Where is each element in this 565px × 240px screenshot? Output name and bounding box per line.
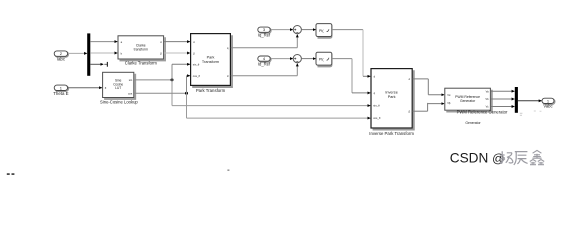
svg-text:sin_θ: sin_θ [193, 63, 200, 67]
svg-text:CSDN @: CSDN @ [450, 151, 505, 166]
svg-text:sin: sin [129, 78, 133, 82]
output port 1 Vabc [542, 98, 555, 108]
svg-text:Transform: Transform [202, 60, 219, 64]
svg-text:PI(: PI( [319, 57, 324, 61]
svg-text:sin_θ: sin_θ [373, 104, 380, 108]
hanzi yang [500, 151, 513, 163]
svg-text:Park: Park [207, 56, 215, 60]
svg-text:Vβ: Vβ [447, 101, 451, 105]
block Sine-Cosine Lookup [100, 72, 138, 104]
svg-text:Park Transform: Park Transform [196, 88, 226, 93]
block Park Transform [191, 34, 232, 93]
svg-text:Iq_Ref: Iq_Ref [258, 33, 271, 38]
svg-text:Generator: Generator [465, 121, 481, 125]
stray faint marks under mux [520, 111, 542, 116]
block Inverse Park Transform [369, 69, 414, 136]
svg-text:Id_Ref: Id_Ref [258, 62, 271, 67]
svg-text:Inverse: Inverse [385, 91, 397, 95]
input port 1 Theta E [53, 85, 68, 96]
wire Iq_Ref to sum1 [271, 29, 293, 31]
block Clarke Transform [118, 36, 165, 66]
wire Clarke out1 to Park in1 [164, 41, 190, 43]
wire PI1 to Inverse Park in2 [332, 30, 370, 77]
svg-text:Park: Park [388, 95, 396, 99]
sum block Sum1 [293, 26, 301, 34]
wire Clarke out2 to Park in2 [164, 52, 190, 54]
hanzi xin [530, 150, 544, 165]
wire sin output with junction [134, 64, 370, 105]
svg-text:Vabc: Vabc [543, 104, 552, 109]
svg-text:cos_θ: cos_θ [373, 116, 381, 120]
wire PWM out1 to mux [491, 90, 515, 92]
svg-text:Vb: Vb [485, 97, 489, 101]
svg-text:PI(: PI( [319, 29, 324, 33]
mux Mux1 (bar) [515, 87, 518, 113]
svg-text:PWM Reference Generator: PWM Reference Generator [457, 110, 508, 115]
wire Inverse Park out1 to PWM in1 [412, 79, 444, 95]
wire Iabc to demux [68, 52, 87, 54]
wire PWM out2 to mux [491, 98, 515, 100]
svg-text:cos: cos [128, 92, 133, 95]
svg-text:Vα: Vα [447, 93, 451, 97]
block PWM Reference Generator [445, 88, 508, 125]
svg-text:Clarke Transform: Clarke Transform [125, 61, 158, 66]
wire Id_Ref to sum2 [271, 58, 293, 60]
PI controller block PI2 [316, 52, 332, 66]
wire demux out3 to terminator [90, 62, 107, 67]
svg-text:Iabc: Iabc [57, 57, 66, 62]
input port 4 Id_Ref [258, 56, 271, 67]
input port 2 Iabc [54, 51, 68, 62]
wire PWM out3 to mux [491, 106, 515, 108]
svg-text:Inverse Park Transform: Inverse Park Transform [369, 131, 414, 136]
wire sum1 to PI1 [302, 29, 316, 31]
wire Park out1 feedback to sum1 [231, 35, 297, 48]
wire sum2 to PI2 [302, 58, 316, 60]
svg-text:Theta E: Theta E [53, 91, 68, 96]
demux Demux1 (bar) [87, 33, 90, 75]
wire Inverse Park out2 to PWM in2 [412, 103, 444, 111]
wire cos output with junction [134, 76, 370, 118]
svg-text:cos_θ: cos_θ [193, 74, 201, 78]
wire mux to output port [518, 100, 542, 102]
wire Park out2 feedback to sum2 [231, 64, 297, 76]
svg-text:Generator: Generator [460, 99, 476, 103]
wire Theta E to Sine-Cosine [68, 87, 102, 89]
sum block Sum2 [293, 55, 301, 63]
svg-text:LUT: LUT [115, 86, 121, 90]
wire demux out1 to Clarke in1 [90, 41, 117, 43]
svg-text:transform: transform [134, 48, 148, 52]
wire PI2 to Inverse Park in1 [332, 59, 370, 93]
svg-text:Sine-Cosine Lookup: Sine-Cosine Lookup [100, 100, 138, 105]
watermark CSDN [450, 150, 544, 165]
clipped text marks bottom left [7, 169, 230, 175]
input port 3 Iq_Ref [258, 27, 271, 37]
wire demux out2 to Clarke in2 [90, 52, 117, 54]
PI controller block PI1 [316, 24, 332, 38]
hanzi chen [514, 152, 528, 165]
